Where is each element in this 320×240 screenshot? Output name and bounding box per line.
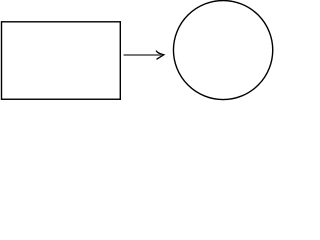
rectangle box (2, 22, 121, 99)
wire (arrow shaft) (124, 54, 162, 56)
arrowhead (156, 51, 164, 60)
circle node (173, 1, 272, 100)
